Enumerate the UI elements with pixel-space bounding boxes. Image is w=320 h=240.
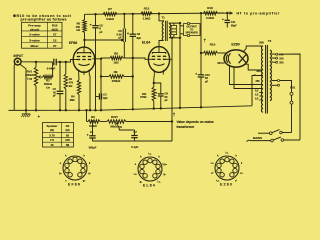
svg-text:R9: R9 (114, 70, 118, 74)
svg-text:6.8kΩ: 6.8kΩ (89, 124, 97, 128)
svg-text:220: 220 (279, 57, 284, 60)
svg-text:C8: C8 (137, 32, 141, 36)
svg-text:3.9kΩ: 3.9kΩ (106, 17, 114, 21)
capacitor C4 (87, 120, 97, 149)
svg-text:Lin: Lin (46, 85, 50, 89)
svg-text:µF: µF (99, 30, 102, 34)
svg-text:Mixer: Mixer (30, 44, 39, 48)
svg-text:15: 15 (50, 143, 54, 147)
svg-text:2-valve: 2-valve (29, 33, 40, 37)
svg-text:1.5kΩ: 1.5kΩ (143, 16, 151, 20)
svg-text:500kΩ: 500kΩ (44, 82, 53, 86)
svg-text:390µF: 390µF (89, 145, 97, 149)
label 0V tap (254, 74, 256, 77)
svg-text:FS1: FS1 (290, 86, 295, 90)
svg-text:0·1µF: 0·1µF (131, 145, 138, 149)
svg-text:R16: R16 (207, 6, 213, 10)
svg-text:EF86: EF86 (68, 183, 81, 187)
resistor R7 (103, 7, 117, 21)
svg-text:8µF: 8µF (137, 36, 142, 40)
svg-text:MAINS: MAINS (253, 136, 262, 140)
svg-text:pre-amplifier as follows: pre-amplifier as follows (21, 18, 67, 22)
svg-text:270Ω: 270Ω (140, 95, 146, 99)
svg-text:0·04µF: 0·04µF (47, 66, 56, 70)
resistor R1 (41, 75, 53, 89)
svg-text:EZ80: EZ80 (220, 183, 233, 187)
resistor R16 (204, 6, 218, 20)
wire C1 to grid (56, 60, 73, 63)
label MAINS (253, 136, 262, 140)
svg-text:EZ80: EZ80 (231, 42, 239, 46)
svg-text:82: 82 (66, 133, 70, 137)
junction speck (38, 116, 40, 118)
resistor R5 (76, 14, 87, 47)
svg-text:2.2kΩ: 2.2kΩ (206, 16, 214, 20)
wire EL84 grid (133, 58, 149, 59)
svg-text:EL84: EL84 (142, 41, 150, 45)
pin labels EZ80 (211, 152, 244, 183)
svg-text:T1: T1 (161, 16, 165, 20)
svg-text:3-valve: 3-valve (29, 39, 40, 43)
svg-text:(kΩ): (kΩ) (52, 27, 58, 31)
label 250V tap (256, 80, 261, 83)
wire T2 centre tap (252, 76, 263, 106)
capacitor C7 (131, 130, 138, 149)
label T2 (268, 39, 272, 43)
table: speaker R4 values (43, 123, 74, 148)
capacitor C1 (47, 59, 56, 71)
resistor R15 (200, 13, 227, 55)
svg-text:g₁: g₁ (88, 172, 90, 175)
resistor R4 (70, 75, 81, 111)
svg-text:300: 300 (259, 41, 264, 45)
wire anode coupling (85, 39, 124, 41)
pin labels EL84 (134, 153, 167, 184)
fuse FS1 (290, 86, 296, 133)
HT rail (85, 12, 229, 16)
capacitor C2 (53, 61, 64, 110)
svg-text:transformer: transformer (177, 125, 196, 129)
svg-text:200: 200 (279, 62, 284, 65)
switch S1b (247, 137, 301, 142)
switch S1a (258, 130, 292, 135)
wire EZ80 heater 2 (234, 67, 263, 89)
wire T2 heater taps (255, 91, 263, 101)
svg-text:3.75: 3.75 (49, 133, 55, 137)
svg-text:SPEAKER: SPEAKER (186, 32, 198, 35)
svg-text:220kΩ: 220kΩ (112, 79, 121, 83)
svg-text:i.c.: i.c. (216, 180, 220, 183)
svg-text:R12: R12 (144, 7, 150, 11)
svg-text:µF: µF (205, 79, 208, 83)
note: R10 selection (13, 14, 72, 22)
resistor R6 (87, 115, 101, 128)
svg-text:100: 100 (65, 138, 70, 142)
resistor R9 (101, 70, 133, 83)
capacitor C11 (222, 13, 237, 27)
svg-text:i.c.: i.c. (134, 173, 138, 176)
svg-text:12: 12 (53, 39, 57, 43)
pin labels EF86 (59, 155, 91, 183)
svg-text:kΩ: kΩ (76, 28, 80, 32)
svg-text:300: 300 (256, 69, 261, 73)
svg-text:R15: R15 (210, 42, 216, 46)
svg-text:1kΩ: 1kΩ (113, 61, 119, 65)
svg-text:7.5: 7.5 (50, 138, 54, 142)
capacitor C9 (154, 83, 169, 108)
transformer T2 (261, 45, 271, 114)
label EF86 (69, 41, 77, 45)
resistor R14 (171, 23, 176, 38)
label EL84 (142, 41, 150, 45)
svg-text:Value depends on mains: Value depends on mains (177, 120, 214, 124)
svg-text:circuit: circuit (30, 27, 39, 31)
svg-text:8µF: 8µF (103, 97, 108, 100)
svg-text:27: 27 (53, 44, 57, 48)
label 300V bottom (256, 69, 261, 73)
wire EZ80 anode 2 (245, 64, 263, 70)
wire feedback from secondary (171, 37, 173, 141)
wire speaker line (179, 22, 181, 108)
svg-text:EF86: EF86 (69, 41, 77, 45)
wire feedback line (126, 121, 172, 123)
svg-text:(Ω): (Ω) (65, 128, 69, 132)
wire jack sleeve to chassis (20, 64, 26, 110)
potentiometer RV1 (25, 62, 43, 110)
svg-text:i.c.: i.c. (157, 181, 161, 184)
label T1 (161, 16, 165, 20)
valve V1 EF86 (73, 47, 101, 75)
table: R10 pre-amp values (22, 22, 63, 48)
svg-text:C7: C7 (134, 130, 138, 134)
svg-text:68: 68 (66, 143, 70, 147)
svg-text:240: 240 (279, 53, 284, 56)
svg-text:OUTPUT: OUTPUT (187, 26, 198, 29)
output speaker terminals (180, 22, 200, 36)
svg-text:T2: T2 (268, 39, 272, 43)
wire EZ80 spare pin stub (218, 62, 225, 64)
resistor R8 (101, 52, 133, 65)
valve V2 EL84 (148, 46, 172, 75)
HT output arrow (218, 11, 280, 15)
svg-text:R7: R7 (108, 7, 112, 11)
svg-text:HT to pre-amplifier: HT to pre-amplifier (237, 11, 280, 15)
ground rail (9, 106, 253, 112)
svg-text:68Ω: 68Ω (70, 99, 75, 102)
ground symbol (21, 110, 35, 117)
svg-text:R1: R1 (46, 79, 50, 83)
wire suppressor (88, 75, 91, 111)
capacitor C8 (127, 14, 142, 109)
input jack J1 (14, 58, 21, 65)
svg-text:27: 27 (53, 33, 57, 37)
capacitor C3 (96, 93, 109, 100)
svg-text:250: 250 (256, 80, 261, 83)
wire R1 to C1 (52, 62, 54, 77)
svg-text:R11: R11 (142, 92, 147, 96)
svg-text:i.c.: i.c. (148, 153, 152, 156)
svg-text:50µF: 50µF (231, 24, 237, 27)
svg-text:(Ω): (Ω) (50, 128, 54, 132)
resistor R12 (141, 7, 152, 21)
label EZ80 (231, 42, 239, 46)
potentiometer RV2 (100, 115, 135, 130)
svg-text:i.c.: i.c. (225, 152, 229, 155)
valve base EL84 (138, 157, 162, 188)
label INPUT (14, 54, 24, 58)
svg-text:EL84: EL84 (143, 184, 156, 188)
svg-text:i.c.: i.c. (240, 172, 244, 175)
capacitor C10 (195, 53, 210, 107)
wire screen pin (100, 58, 102, 111)
wire jack to ground rail (13, 63, 16, 110)
wire T2 0V tap (272, 79, 292, 92)
svg-text:g₂: g₂ (140, 181, 143, 184)
wire feedback left (86, 110, 88, 121)
valve base EF86 (63, 156, 87, 187)
transformer T1 (159, 14, 180, 47)
capacitor C5 (90, 14, 104, 110)
svg-text:g₁: g₁ (163, 173, 165, 176)
valve base EZ80 (215, 156, 239, 187)
svg-text:C4: C4 (90, 130, 94, 134)
svg-text:50kΩLog: 50kΩLog (110, 124, 122, 128)
svg-text:i.c.: i.c. (211, 162, 215, 165)
wire T2 240V tap (272, 53, 300, 140)
svg-text:RV2†: RV2† (111, 115, 118, 119)
capacitor C6 (117, 14, 126, 58)
wire EZ80 heater 1 (230, 66, 263, 85)
valve V3 EZ80 (224, 50, 248, 67)
svg-text:g₂: g₂ (59, 172, 62, 175)
svg-text:47Ω: 47Ω (172, 31, 176, 34)
svg-text:µF: µF (53, 95, 56, 98)
label 300V top (259, 41, 264, 45)
svg-text:µF: µF (119, 36, 122, 40)
wire T2 220V tap (272, 57, 284, 60)
wire T2 200V tap (272, 61, 284, 64)
svg-text:Log: Log (27, 77, 32, 81)
svg-text:µF: µF (165, 98, 168, 102)
svg-text:R6: R6 (91, 115, 95, 119)
resistor R11 (140, 75, 155, 109)
resistor R2 (64, 61, 74, 110)
wire input line (21, 61, 52, 63)
svg-text:k,g₃: k,g₃ (162, 163, 167, 166)
wire feedback bottom (93, 140, 173, 142)
wire EZ80 anode 1 (244, 46, 263, 52)
svg-text:kΩ: kΩ (69, 84, 73, 88)
note: dagger (173, 112, 214, 129)
svg-text:R8: R8 (114, 52, 118, 56)
svg-text:g₃: g₃ (83, 180, 86, 183)
